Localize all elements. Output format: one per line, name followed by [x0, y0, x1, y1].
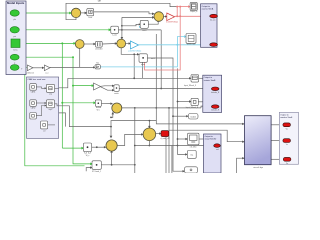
svg-text:Output to: Output to: [280, 114, 289, 117]
red block W21 cmd scope: [160, 131, 169, 141]
wire into L4 input3: [237, 157, 245, 173]
wire W10 out up to C6 bottom and right: [101, 150, 134, 166]
svg-text:Output to: Output to: [202, 5, 211, 8]
gain G2: [44, 65, 50, 75]
svg-text:rud: rud: [216, 149, 219, 151]
wire cyan blue gain W19 out long to L1 port2: [139, 44, 209, 47]
svg-text:-0.00764*180/pi: -0.00764*180/pi: [128, 51, 142, 53]
svg-text:unp2: unp2: [48, 109, 52, 111]
outport L2 red port2: [211, 105, 220, 112]
block b1: [30, 84, 37, 94]
block W10 data read: [92, 161, 101, 173]
block W6 merge: [114, 85, 119, 95]
block b6: [41, 121, 48, 133]
wire b4 out to panel edge: [55, 104, 59, 106]
wire W10 lower input hook: [86, 166, 92, 171]
subsystem T1 input source panel: [6, 1, 26, 75]
wire hanging vertical x166: [165, 137, 167, 173]
svg-text:1-axis: 1-axis: [112, 34, 117, 36]
svg-text:lat_acc: lat_acc: [210, 19, 216, 22]
wire red vertical x181 down to W8: [145, 6, 182, 70]
svg-text:Input_Wheel_F: Input_Wheel_F: [184, 84, 197, 87]
svg-text:CAN1: CAN1: [31, 91, 36, 94]
outport R2: [283, 139, 291, 146]
svg-text:unfiltered: unfiltered: [26, 72, 33, 75]
svg-text:LimitedInt: LimitedInt: [95, 47, 103, 50]
wire vertical x156.3 with header to C5 C6 tops: [110, 34, 157, 138]
block W22 rate transition: [139, 20, 148, 32]
svg-text:avionic SimA: avionic SimA: [202, 7, 214, 10]
wire W22 out up into C7 bottom: [148, 19, 159, 24]
wire W15 out stub to L2: [198, 101, 203, 103]
wire green net5 oval4 to gain G1: [19, 66, 27, 68]
wire vertical x161 down to L2 port wire: [160, 30, 162, 90]
block W2 one axis: [111, 26, 119, 36]
wire C2 out to W3: [84, 43, 96, 46]
annotation top fragment: [98, 0, 102, 2]
wire b1 to b2: [36, 87, 46, 89]
gain G1: [26, 65, 33, 75]
wire W3 out to sum C3: [102, 42, 117, 45]
svg-text:CAN2: CAN2: [31, 107, 36, 110]
wire green net4 oval3 branch to gain W5 and block W10: [19, 56, 95, 165]
wire red vertical x177: [176, 6, 178, 18]
wire W9 out to sum C6: [92, 146, 107, 148]
subsystem L3 output to sim: [204, 134, 222, 173]
wire C7 out to red gain W20: [164, 15, 168, 17]
block W15 sensed: [186, 98, 199, 109]
svg-text:roll_Mon: roll_Mon: [190, 146, 197, 148]
wire L4 out2 to scope R2: [271, 140, 283, 142]
svg-text:STComb_1: STComb_1: [92, 171, 101, 173]
source square: [11, 39, 20, 52]
svg-text:swtch: swtch: [114, 92, 119, 95]
sum C5: [143, 128, 156, 141]
svg-text:aircraft dyn: aircraft dyn: [253, 166, 263, 169]
outport L3 red port: [214, 144, 221, 151]
wire long bus y78 to W14: [59, 77, 192, 88]
sum C1: [71, 8, 80, 17]
wire W2 out up to sum C7 input2 and down to sum C3 top: [119, 16, 162, 40]
panel P2 scopes: [279, 112, 298, 164]
gain W5: [94, 83, 101, 90]
wire b3 to b4: [36, 102, 46, 104]
block b2: [46, 84, 54, 95]
block W1 limiter: [87, 9, 94, 19]
wire G2 out to W4 input2: [50, 66, 95, 68]
block W16 monitor: [188, 133, 200, 148]
wire cyan W4 out up to W13 and lookup path: [100, 35, 186, 67]
svg-text:Input_Wheel_R: Input_Wheel_R: [186, 106, 199, 109]
gain W19 blue: [128, 41, 142, 53]
wire vertical x134.8 down to bottom: [134, 108, 136, 173]
svg-text:mem: mem: [141, 64, 145, 66]
wire green net2 oval2 to block W2: [19, 28, 112, 31]
wire W1 out to sum C7 input1: [94, 12, 155, 15]
block W8 with red tap: [139, 54, 156, 66]
wire green net6 tall block bottom port down and right: [25, 13, 85, 166]
wire b2 out to panel edge: [55, 87, 59, 89]
sum C3: [117, 39, 126, 48]
svg-text:Model Inputs: Model Inputs: [7, 1, 25, 5]
svg-text:LastU: LastU: [142, 29, 147, 32]
inport oval4: [10, 65, 22, 71]
svg-text:Za: Za: [286, 163, 288, 165]
svg-text:Limit: Limit: [88, 16, 92, 19]
block W17 na: [187, 151, 196, 159]
wire C3 bottom to W8 with branch down: [121, 48, 142, 78]
block W4 rate with cyan out: [95, 62, 100, 69]
svg-text:latitude_E: latitude_E: [211, 108, 220, 111]
wire green net1 oval1 to sum C1: [19, 12, 72, 15]
outport R1: [283, 123, 291, 130]
svg-text:Output to: Output to: [204, 76, 213, 79]
wire C4 out long right with branches: [122, 107, 201, 109]
wire branch to rate block W22: [122, 23, 141, 26]
wire P1 out2 down and right: [59, 106, 111, 127]
wire L4 out3 to scope R3: [271, 158, 284, 160]
wire b5 to b4 input2: [36, 105, 46, 116]
wire L4 out1 to scope R1: [271, 124, 283, 126]
outport L1 red port2: [210, 43, 218, 47]
svg-text:W_s: W_s: [86, 155, 90, 157]
wire W7 out to sum C4: [102, 102, 114, 105]
outport L2 red port1: [211, 87, 220, 94]
block W3 rate limiter: [95, 41, 103, 50]
svg-text:CAN bus read raw: CAN bus read raw: [28, 78, 46, 81]
wire into L4 input1: [156, 121, 245, 126]
subsystem P1 CAN input panel: [27, 77, 59, 138]
inport oval3: [10, 54, 19, 64]
block W13 store last: [186, 34, 196, 46]
wire red into W12: [177, 5, 191, 8]
block b5: [30, 113, 37, 120]
block W9 data read: [83, 143, 91, 157]
svg-text:Va: Va: [286, 128, 288, 130]
svg-text:Ya: Ya: [286, 144, 288, 146]
wire C5 out to red block W21: [156, 132, 162, 134]
wire C1 out to W1: [81, 12, 88, 15]
svg-text:avionic SimB: avionic SimB: [204, 80, 216, 82]
wire W5 out fan to W6 two inputs: [101, 85, 115, 92]
wire L2 port2 feed: [201, 105, 212, 108]
outport L1 red port1: [210, 14, 218, 21]
sum C2: [75, 40, 84, 49]
svg-text:wheel_last: wheel_last: [187, 42, 196, 45]
svg-text:monitor SimE: monitor SimE: [280, 116, 293, 119]
wire W8 out down long vertical x173: [148, 58, 189, 172]
gain W20 red triangle: [166, 13, 179, 24]
outport R3: [283, 157, 291, 164]
wire long y145.5 to L3 port: [135, 144, 214, 146]
svg-text:Output_d: Output_d: [190, 10, 197, 13]
wire vertical x177.5 feeding W15 W16 W17: [177, 68, 192, 155]
svg-text:0.00698*180/pi: 0.00698*180/pi: [166, 22, 179, 24]
wire W14 out stub to L2: [199, 77, 203, 79]
wire top feedback from C1 bottom up and across: [66, 3, 177, 19]
wire C6 out up to sum C5 left input: [117, 133, 143, 145]
wire C4 bottom feed: [110, 112, 114, 119]
sum C7: [154, 12, 164, 22]
svg-text:visual Sim3D: visual Sim3D: [205, 139, 217, 141]
block W15b command: [188, 114, 198, 120]
svg-text:W_r: W_r: [97, 109, 101, 111]
wire into L4 input2: [168, 107, 245, 173]
subsystem L4 aircraft dynamics: [245, 116, 272, 169]
block W14 input wheel: [184, 75, 199, 87]
block W12 output store: [190, 2, 197, 13]
svg-text:mode1: mode1: [190, 116, 196, 118]
svg-text:unp: unp: [49, 94, 52, 96]
wire W6 out long to L2 port1: [119, 87, 211, 89]
sum C4: [112, 103, 122, 113]
subsystem L2 output to pilot: [203, 75, 222, 112]
wire C3 out to blue gain W19: [126, 42, 131, 44]
svg-text:latitude_N: latitude_N: [211, 91, 220, 94]
wire b6 out: [48, 124, 55, 126]
svg-text:ctrl: ctrl: [98, 0, 102, 2]
sum C6: [106, 140, 117, 151]
inport oval1: [10, 10, 19, 21]
wire C5 bottom junction to long rudder wire: [149, 141, 151, 147]
svg-text:w_n: w_n: [45, 73, 48, 75]
block b3: [30, 100, 37, 110]
wire green net3 square to sum C2 with branches to W7 and W9: [20, 42, 96, 150]
block b4: [46, 100, 54, 111]
wire W16 out stub to L3: [199, 138, 203, 140]
block W7 data read: [95, 100, 101, 112]
block W18 bottom: [185, 167, 198, 173]
wire G1 to G2: [33, 67, 45, 69]
inport oval2: [10, 27, 19, 38]
wire red triangle W20 out to L1 port1: [175, 15, 209, 18]
svg-text:Output to: Output to: [205, 135, 214, 138]
svg-text:d_rudd_cM: d_rudd_cM: [160, 138, 169, 140]
wire hanging vertical x171.9: [171, 146, 173, 174]
subsystem L1 output to avionics: [201, 4, 217, 48]
wire C2 bottom down and right to W4 input1: [79, 49, 81, 68]
